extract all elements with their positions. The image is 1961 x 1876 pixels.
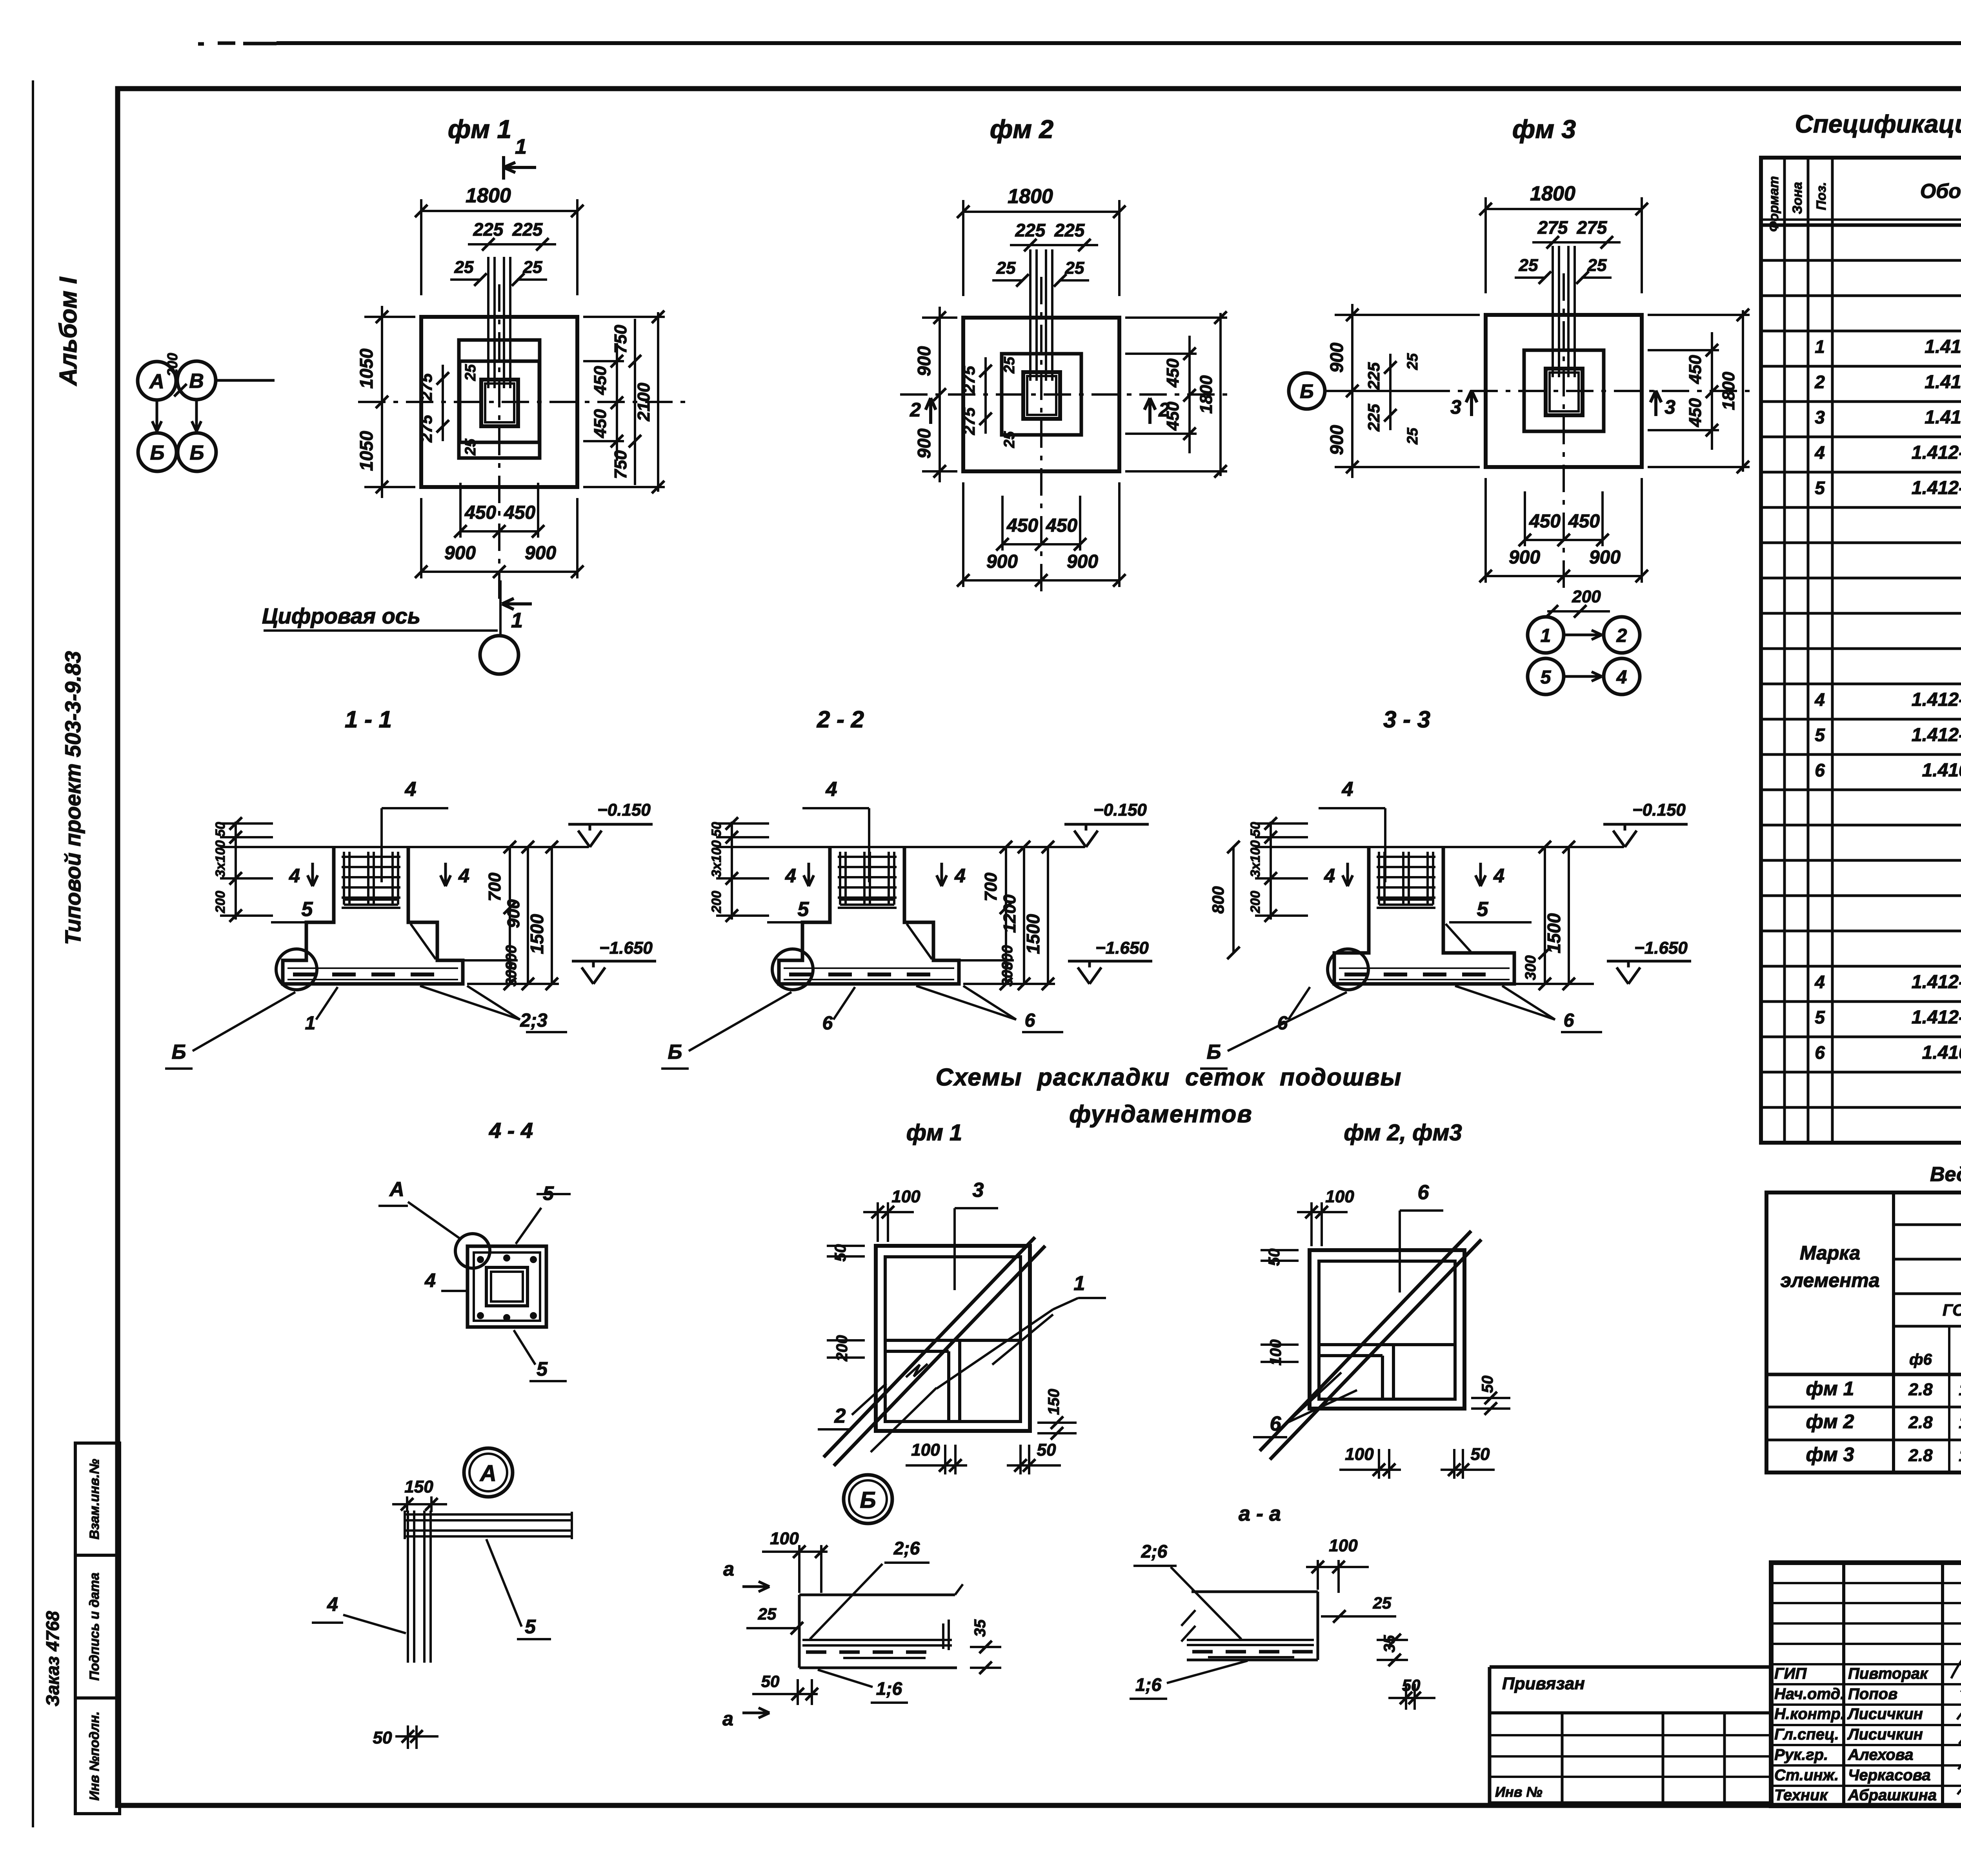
plan фм 1 right dimensions — [583, 360, 624, 362]
svg-text:1 - 1: 1 - 1 — [345, 706, 392, 733]
svg-text:2: 2 — [910, 399, 921, 421]
title block signatures — [1951, 1655, 1961, 1801]
svg-text:2 - 2: 2 - 2 — [817, 706, 864, 733]
svg-text:25: 25 — [1065, 258, 1084, 278]
svg-text:4 - 4: 4 - 4 — [489, 1118, 533, 1143]
svg-text:А: А — [479, 1461, 497, 1486]
svg-text:6: 6 — [1270, 1412, 1282, 1435]
mesh layout фм1 cut diagonal — [824, 1237, 1035, 1457]
svg-text:5: 5 — [798, 898, 810, 921]
svg-text:фундаментов: фундаментов — [1069, 1101, 1252, 1128]
svg-text:25: 25 — [758, 1605, 777, 1623]
цифровая ось circle — [480, 636, 518, 674]
section 1 - 1 profile — [283, 847, 463, 984]
section 3 - 3 left small dims — [1270, 822, 1272, 920]
svg-text:5: 5 — [1815, 725, 1825, 745]
svg-text:2.8: 2.8 — [1908, 1446, 1933, 1465]
svg-text:1.412-1/77 вып.3: 1.412-1/77 вып.3 — [1912, 972, 1961, 993]
section 2 - 2 level -0.150 — [1074, 831, 1086, 847]
svg-text:Ст.инж.: Ст.инж. — [1774, 1767, 1839, 1784]
svg-text:900: 900 — [525, 543, 556, 564]
svg-text:1: 1 — [1541, 625, 1551, 646]
svg-text:450: 450 — [504, 502, 535, 523]
section 3 - 3 profile — [1334, 847, 1514, 984]
svg-text:−0.150: −0.150 — [1093, 800, 1147, 820]
svg-text:1.410-2 вып.1: 1.410-2 вып.1 — [1925, 372, 1961, 393]
svg-text:Инв №: Инв № — [1495, 1784, 1543, 1800]
plan фм1 cut mark 1 top — [504, 166, 536, 169]
svg-text:25: 25 — [462, 364, 479, 381]
section 2 - 2 profile — [779, 847, 959, 984]
section 3 - 3 ground line — [1255, 846, 1624, 848]
detail А corner mesh — [407, 1511, 409, 1663]
svg-text:50: 50 — [1248, 822, 1263, 837]
svg-text:6: 6 — [1564, 1010, 1574, 1031]
spec table frame — [1761, 158, 1961, 1143]
svg-text:450: 450 — [591, 366, 610, 395]
svg-text:3х100: 3х100 — [213, 840, 228, 878]
svg-text:А: А — [149, 370, 164, 393]
plan фм3 mesh sequence circles — [1528, 617, 1564, 653]
svg-text:4: 4 — [954, 865, 966, 887]
svg-text:ГИП: ГИП — [1774, 1665, 1807, 1682]
section 3 - 3 level -1.650 — [1617, 967, 1628, 984]
svg-text:25: 25 — [1404, 427, 1421, 445]
svg-text:2100: 2100 — [634, 383, 653, 422]
privyazan block — [1490, 1665, 1771, 1669]
svg-text:25: 25 — [1001, 356, 1018, 374]
svg-text:275: 275 — [1577, 217, 1608, 238]
section 2 - 2 level -1.650 — [1078, 967, 1090, 984]
svg-text:фм 1: фм 1 — [906, 1120, 962, 1145]
plan фм 3 top dimensions — [1484, 197, 1487, 293]
svg-text:1: 1 — [1074, 1272, 1085, 1295]
svg-text:1.412-1/77 вып.3: 1.412-1/77 вып.3 — [1912, 478, 1961, 498]
detail circle label А — [464, 1448, 513, 1497]
mesh layout фм1 zigzag mark — [906, 1364, 928, 1377]
axis circle Б right — [178, 433, 216, 471]
svg-text:Формат: Формат — [1766, 176, 1781, 232]
svg-text:1800: 1800 — [1719, 372, 1738, 410]
svg-text:ГОСТ 5781-81: ГОСТ 5781-81 — [1943, 1301, 1961, 1319]
section 1 - 1 detail circle Б — [276, 949, 317, 990]
svg-text:фм 3: фм 3 — [1806, 1443, 1854, 1465]
svg-text:900: 900 — [444, 543, 476, 564]
mesh layout фм1 mesh-1 diagonals — [937, 1309, 1053, 1389]
svg-text:3х100: 3х100 — [709, 840, 724, 878]
section 2 - 2 detail circle Б — [772, 949, 813, 990]
svg-text:200: 200 — [164, 353, 180, 377]
svg-text:225: 225 — [473, 219, 504, 240]
svg-text:300: 300 — [1523, 955, 1539, 980]
section 2 - 2 ground line — [716, 846, 1085, 848]
plan фм 3 outer slab — [1486, 315, 1642, 467]
svg-text:50: 50 — [1479, 1376, 1496, 1393]
margin stamp boxes — [75, 1443, 120, 1555]
svg-text:Цифровая ось: Цифровая ось — [262, 604, 420, 628]
svg-text:2: 2 — [1814, 372, 1825, 392]
svg-text:ф6: ф6 — [1909, 1351, 1932, 1368]
section 4-4 rebar dots — [478, 1257, 483, 1262]
steel table marka column — [1892, 1192, 1895, 1472]
svg-text:1800: 1800 — [1197, 375, 1216, 414]
section 1 - 1 ground line — [220, 846, 589, 848]
svg-text:−1.650: −1.650 — [1095, 938, 1149, 958]
svg-text:фм 2, фм3: фм 2, фм3 — [1344, 1120, 1462, 1145]
svg-text:Поз.: Поз. — [1814, 182, 1829, 210]
svg-text:5: 5 — [525, 1616, 536, 1638]
section 2 - 2 right dims — [940, 846, 1055, 848]
svg-text:25: 25 — [462, 438, 479, 456]
svg-text:2: 2 — [1616, 625, 1627, 646]
svg-text:900: 900 — [1326, 342, 1347, 373]
svg-text:1: 1 — [515, 135, 527, 158]
svg-text:200: 200 — [709, 891, 724, 914]
svg-text:450: 450 — [464, 502, 496, 523]
svg-text:1800: 1800 — [1008, 185, 1053, 208]
svg-text:фм 2: фм 2 — [990, 115, 1054, 144]
svg-text:1050: 1050 — [356, 431, 377, 471]
svg-text:900: 900 — [914, 346, 934, 376]
plan фм 2 middle step — [1002, 354, 1081, 435]
svg-text:Лисичкин: Лисичкин — [1847, 1705, 1923, 1723]
svg-text:фм 2: фм 2 — [1806, 1411, 1854, 1432]
section 1 - 1 level -0.150 — [578, 831, 590, 847]
svg-text:Нач.отд.: Нач.отд. — [1774, 1685, 1845, 1703]
svg-text:Абрашкина: Абрашкина — [1848, 1787, 1937, 1804]
svg-text:700: 700 — [981, 873, 1001, 902]
svg-text:−0.150: −0.150 — [597, 800, 651, 820]
svg-text:3: 3 — [1664, 396, 1675, 418]
svg-text:275: 275 — [1537, 217, 1568, 238]
plan фм 3 middle step — [1524, 350, 1604, 431]
svg-text:4: 4 — [405, 778, 417, 801]
svg-text:3: 3 — [1450, 396, 1461, 418]
plan фм 1 outer slab — [421, 317, 577, 487]
svg-text:В: В — [189, 370, 204, 393]
plan фм 1 section trace lines above column — [487, 257, 489, 388]
svg-text:Попов: Попов — [1848, 1685, 1897, 1703]
svg-text:900: 900 — [1326, 425, 1347, 455]
svg-text:элемента: элемента — [1780, 1269, 1879, 1291]
svg-text:450: 450 — [1529, 511, 1561, 532]
svg-text:а - а: а - а — [1239, 1502, 1281, 1525]
svg-text:4: 4 — [1342, 778, 1353, 801]
svg-text:3 - 3: 3 - 3 — [1383, 706, 1430, 733]
svg-text:5: 5 — [1541, 667, 1552, 688]
svg-text:450: 450 — [591, 409, 610, 438]
svg-text:5: 5 — [302, 898, 313, 921]
axis leader line — [216, 379, 275, 382]
detail а-а plate outline — [1192, 1591, 1318, 1593]
svg-text:1.410-2 вып.1: 1.410-2 вып.1 — [1922, 1042, 1961, 1063]
plan фм 3 section trace lines above column — [1552, 246, 1554, 377]
svg-text:50: 50 — [1037, 1440, 1056, 1460]
section 1 - 1 level -1.650 — [582, 967, 593, 984]
svg-text:Рук.гр.: Рук.гр. — [1774, 1746, 1828, 1763]
svg-text:Подпись и дата: Подпись и дата — [87, 1572, 102, 1681]
plan фм3 cut mark 3 right — [1654, 393, 1657, 416]
svg-text:1.412-1/77 вып.3: 1.412-1/77 вып.3 — [1912, 1007, 1961, 1028]
svg-text:50: 50 — [761, 1672, 780, 1691]
svg-text:1: 1 — [305, 1013, 316, 1034]
svg-text:1.412-1/77 вып.3: 1.412-1/77 вып.3 — [1912, 442, 1961, 463]
svg-text:Обозначение: Обозначение — [1920, 180, 1961, 203]
svg-text:100: 100 — [911, 1440, 940, 1460]
sheet scan edge left — [32, 80, 34, 1827]
svg-text:750: 750 — [611, 325, 630, 354]
svg-text:1500: 1500 — [527, 914, 547, 954]
svg-text:50: 50 — [709, 822, 724, 837]
svg-text:Н.контр.: Н.контр. — [1774, 1705, 1845, 1723]
svg-text:2: 2 — [834, 1405, 846, 1427]
section 3 - 3 concrete slope line — [1446, 924, 1471, 952]
svg-text:Черкасова: Черкасова — [1848, 1767, 1931, 1784]
section 3 - 3 column reinforcement cage — [1378, 852, 1380, 905]
mesh layout фм1 square — [876, 1246, 1030, 1431]
plan фм 3 bottom dimensions — [1524, 491, 1526, 546]
svg-text:1.410-2 вып.1: 1.410-2 вып.1 — [1925, 336, 1961, 357]
svg-text:750: 750 — [611, 450, 630, 479]
section 1 - 1 slab mesh — [287, 967, 458, 969]
svg-text:1.412-1/77 вып.3: 1.412-1/77 вып.3 — [1912, 689, 1961, 710]
svg-text:1500: 1500 — [1544, 913, 1564, 953]
svg-text:100: 100 — [1325, 1187, 1354, 1206]
plan фм 3 right dimensions — [1648, 349, 1719, 351]
svg-text:700: 700 — [485, 873, 504, 902]
svg-text:Алехова: Алехова — [1848, 1746, 1914, 1763]
svg-text:150: 150 — [404, 1477, 433, 1496]
title block left verticals — [1842, 1563, 1845, 1806]
svg-text:100: 100 — [891, 1187, 920, 1206]
svg-text:6: 6 — [1815, 760, 1825, 780]
svg-text:100: 100 — [1329, 1536, 1358, 1555]
svg-text:225: 225 — [1015, 220, 1046, 240]
svg-text:5: 5 — [1477, 898, 1489, 921]
svg-text:Привязан: Привязан — [1502, 1674, 1585, 1693]
svg-text:Схемы раскладки сеток подош: Схемы раскладки сеток подошвы — [936, 1064, 1402, 1091]
detail circle label Б — [844, 1475, 892, 1523]
svg-text:4: 4 — [289, 865, 300, 887]
mesh layout фм1 mesh-2 diagonal — [871, 1388, 937, 1452]
plan фм 1 left dimensions — [381, 306, 383, 498]
svg-text:25: 25 — [1519, 256, 1538, 275]
svg-text:25: 25 — [1587, 256, 1607, 275]
svg-text:800: 800 — [1209, 886, 1227, 914]
svg-text:Б: Б — [190, 442, 204, 464]
svg-text:4: 4 — [1616, 667, 1627, 688]
mesh layout фм2 фм3 square — [1310, 1250, 1464, 1409]
svg-text:Б: Б — [668, 1041, 682, 1063]
svg-text:900: 900 — [914, 428, 934, 458]
svg-text:а: а — [723, 1558, 734, 1580]
plan фм 1 top dimensions — [420, 199, 422, 295]
svg-text:50: 50 — [1471, 1445, 1490, 1464]
svg-text:Альбом I: Альбом I — [55, 276, 82, 387]
svg-text:4: 4 — [1814, 972, 1825, 992]
plan фм 1 axis lines — [358, 401, 686, 403]
svg-text:а: а — [722, 1708, 733, 1730]
svg-text:1200: 1200 — [1000, 894, 1019, 933]
svg-text:50: 50 — [213, 822, 228, 837]
svg-text:1;6: 1;6 — [1135, 1674, 1162, 1695]
section 2 - 2 left small dims — [731, 822, 733, 920]
section 3 - 3 slab mesh — [1339, 967, 1510, 969]
svg-text:фм 1: фм 1 — [448, 115, 511, 144]
svg-text:275: 275 — [960, 365, 978, 394]
detail а-а plate break marks — [1181, 1610, 1195, 1626]
plan фм 2 axis lines — [900, 393, 1228, 396]
svg-text:1: 1 — [511, 609, 523, 632]
steel table sub verticals — [1948, 1326, 1950, 1472]
svg-text:Техник: Техник — [1774, 1787, 1828, 1804]
svg-text:Пивторак: Пивторак — [1848, 1665, 1928, 1682]
svg-text:900: 900 — [986, 551, 1018, 572]
plan фм1 cut mark 1 bottom — [502, 602, 532, 605]
svg-text:4: 4 — [1814, 442, 1825, 463]
detail Б plate mesh — [802, 1639, 952, 1641]
svg-text:225: 225 — [1364, 362, 1383, 390]
svg-text:6: 6 — [1418, 1181, 1430, 1204]
svg-text:200: 200 — [1248, 891, 1263, 914]
plan фм 2 column box — [1023, 372, 1060, 419]
title block frame — [1771, 1563, 1961, 1806]
svg-text:450: 450 — [1006, 515, 1038, 536]
plan фм 2 outer slab — [963, 318, 1119, 471]
svg-text:Б: Б — [172, 1041, 186, 1063]
svg-text:3: 3 — [1815, 407, 1825, 427]
svg-text:Инв №подлн.: Инв №подлн. — [87, 1711, 102, 1801]
svg-text:2;6: 2;6 — [893, 1538, 920, 1558]
svg-text:−0.150: −0.150 — [1632, 800, 1686, 820]
svg-text:35: 35 — [971, 1619, 989, 1637]
svg-text:4: 4 — [424, 1269, 436, 1291]
svg-text:1500: 1500 — [1023, 914, 1043, 954]
section 2 - 2 concrete slope line — [907, 924, 932, 959]
svg-text:17.8: 17.8 — [1959, 1446, 1961, 1465]
title block left rows — [1771, 1582, 1961, 1584]
section 4-4 outer square — [468, 1246, 546, 1327]
svg-text:4: 4 — [1324, 865, 1335, 887]
plan фм 1 middle step — [460, 361, 539, 442]
svg-text:5: 5 — [1815, 478, 1825, 498]
svg-text:Лисичкин: Лисичкин — [1847, 1726, 1923, 1743]
axis circle Б left — [138, 433, 176, 471]
plan фм2 cut mark 2 left — [929, 401, 932, 424]
svg-text:2.8: 2.8 — [1908, 1413, 1933, 1432]
plan фм 2 bottom dimensions — [1001, 496, 1004, 551]
svg-text:Б: Б — [1207, 1041, 1221, 1063]
section 3 - 3 cut arrows 4-4 — [1346, 863, 1349, 884]
svg-text:450: 450 — [1686, 398, 1705, 427]
svg-text:3х100: 3х100 — [1248, 840, 1263, 878]
svg-text:6: 6 — [822, 1013, 833, 1034]
spec table verticals — [1783, 158, 1786, 1143]
section 3 - 3 right dims — [1479, 846, 1594, 848]
svg-text:Спецификация фм 1 ÷ фм3: Спецификация фм 1 ÷ фм3 — [1795, 110, 1961, 138]
plan фм 2 right dimensions — [1125, 353, 1197, 355]
svg-text:25: 25 — [1373, 1594, 1392, 1612]
svg-text:5: 5 — [537, 1358, 548, 1380]
svg-text:275: 275 — [960, 407, 978, 435]
svg-text:фм 1: фм 1 — [1806, 1378, 1854, 1400]
svg-text:150: 150 — [1045, 1389, 1062, 1415]
svg-text:4: 4 — [785, 865, 796, 887]
svg-text:25: 25 — [454, 258, 474, 277]
svg-text:450: 450 — [1568, 511, 1600, 532]
section 4-4 inner square — [486, 1267, 528, 1306]
svg-text:25: 25 — [996, 258, 1016, 278]
plan фм 3 column box — [1546, 369, 1583, 415]
svg-text:фм 3: фм 3 — [1512, 115, 1576, 144]
svg-text:1050: 1050 — [356, 348, 377, 389]
svg-text:15.1: 15.1 — [1959, 1413, 1961, 1432]
svg-text:4: 4 — [1814, 689, 1825, 710]
svg-text:225: 225 — [1364, 404, 1383, 432]
svg-text:2: 2 — [1158, 399, 1170, 421]
svg-text:450: 450 — [1686, 355, 1705, 384]
section 2 - 2 column reinforcement cage — [839, 852, 841, 905]
svg-text:Б: Б — [860, 1487, 876, 1513]
svg-text:25: 25 — [1404, 353, 1421, 370]
section 1 - 1 cut arrows 4-4 — [311, 863, 314, 884]
svg-text:3: 3 — [973, 1179, 984, 1202]
svg-text:2;3: 2;3 — [520, 1010, 548, 1031]
svg-text:225: 225 — [1054, 220, 1085, 240]
plan фм3 cut mark 3 left — [1470, 393, 1473, 416]
svg-text:−1.650: −1.650 — [1634, 938, 1688, 958]
svg-text:450: 450 — [1163, 358, 1182, 388]
svg-text:1.410-2 вып.1: 1.410-2 вып.1 — [1922, 760, 1961, 781]
svg-text:Зона: Зона — [1790, 182, 1805, 214]
svg-text:Типовой проект 503-3-9.83: Типовой проект 503-3-9.83 — [60, 651, 85, 945]
detail а-а plate mesh — [1187, 1639, 1314, 1641]
sheet scan edge top — [198, 42, 204, 46]
svg-text:25: 25 — [523, 258, 542, 277]
svg-text:Марка: Марка — [1800, 1242, 1860, 1264]
svg-text:275: 275 — [417, 414, 435, 443]
spec table header — [1761, 224, 1961, 227]
svg-text:1.412-1/77 вып.3: 1.412-1/77 вып.3 — [1912, 725, 1961, 745]
section 3 - 3 level -0.150 — [1613, 831, 1625, 847]
detail Б mesh right hook — [948, 1620, 950, 1650]
svg-text:900: 900 — [1067, 551, 1098, 572]
svg-text:6: 6 — [1025, 1010, 1035, 1031]
steel table frame — [1766, 1192, 1961, 1472]
svg-text:1800: 1800 — [466, 184, 511, 207]
plan фм 1 step band lines — [459, 340, 540, 458]
plan фм 2 left dimensions — [939, 307, 941, 482]
detail Б plate outline — [799, 1594, 955, 1596]
svg-text:450: 450 — [1046, 515, 1077, 536]
svg-text:1800: 1800 — [1530, 182, 1575, 205]
plan фм 2 section trace lines above column — [1029, 249, 1031, 381]
section 4-4 detail circle A — [455, 1234, 490, 1268]
svg-text:1;6: 1;6 — [876, 1678, 902, 1699]
plan фм 3 axis lines — [1423, 390, 1750, 392]
section 1 - 1 left small dims — [235, 822, 237, 920]
svg-text:4: 4 — [327, 1593, 338, 1615]
axis circle А — [138, 362, 176, 400]
svg-text:1: 1 — [1815, 336, 1825, 357]
plan фм 3 left dimensions — [1351, 304, 1353, 478]
svg-text:4: 4 — [826, 778, 837, 801]
svg-text:Ведомость расхода стали на: Ведомость расхода стали на элемент, кг — [1930, 1163, 1961, 1186]
svg-text:Гл.спец.: Гл.спец. — [1774, 1726, 1839, 1743]
svg-text:100: 100 — [770, 1529, 799, 1548]
section 2 - 2 cut arrows 4-4 — [808, 863, 810, 884]
svg-text:5: 5 — [1815, 1007, 1825, 1027]
